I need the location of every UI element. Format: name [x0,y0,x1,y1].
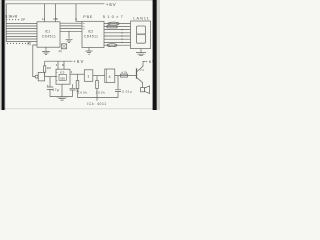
resistor array RP1 bus line 1 [6,22,37,24]
resistor array RP1 bus line 7 [6,38,37,40]
gate G1 body [38,72,44,81]
resistor array RP1 bus line 5 [6,33,37,35]
svg-text:4.7k: 4.7k [121,70,127,74]
svg-text:+6V: +6V [106,2,117,7]
resistor R2 body [44,66,46,72]
arrowhead at IC2 pin [75,19,77,22]
wire cap to ground run [50,96,73,98]
IC3 inner frame [59,74,66,80]
wire segment b to display [104,26,131,28]
7-segment digit lower [137,34,146,43]
resistor R8 body [108,22,119,25]
resistor R4 100k drop [96,76,98,98]
scan gray strip right [157,0,160,110]
capacitor C2 47u plates [47,77,53,97]
svg-text:IC4: 4011: IC4: 4011 [87,102,106,106]
capacitor C1 between IC1 and IC2 [62,44,67,49]
ground under display [136,49,146,56]
ground on bit D wire [66,31,73,42]
svg-text:DP: DP [21,17,25,21]
wire IC1 to IC2 bit D [60,30,82,32]
svg-text:4: 4 [109,75,111,79]
resistor array RP1 bus line 8 [6,41,37,43]
svg-text:IC1: IC1 [45,30,50,34]
svg-text:(6): (6) [59,49,62,53]
wire IC1 to IC2 bit B [60,25,82,27]
svg-text:1M: 1M [47,66,52,70]
svg-text:LAN11: LAN11 [133,17,150,21]
wire bus center drop [96,98,98,101]
resistor R2 1M vertical [44,61,46,76]
scan black band right [153,0,157,110]
resistor R3 body [76,81,79,89]
capacitor C4 0.01u [115,76,121,98]
speaker BL body [140,88,144,92]
wire LT drop to IC1 pin [44,4,46,22]
svg-text:510×7: 510×7 [103,14,125,19]
wire gate1 out to gate4 [93,75,105,77]
junction dots on segment wires [121,29,122,43]
7-segment display LED1 box [131,21,151,49]
svg-text:PBI: PBI [54,17,59,21]
scan edge line bottom [0,107,160,110]
svg-text:IC2: IC2 [88,30,93,34]
gate G1 inverter bubble [35,75,38,78]
resistor R9 body [107,25,117,28]
scan white sliver far left [0,0,2,110]
wire IC1 to IC2 bit A [60,22,82,24]
resistor R3 100k drop [77,74,79,97]
ground under IC3 [57,84,68,100]
svg-text:CD4511: CD4511 [84,35,98,39]
ground under IC2 [86,48,93,55]
resistor array RP1 bus line 6 [6,35,37,37]
IC3 box [56,69,70,84]
wire +6V top rail [6,3,105,5]
wire segment dp to display [104,44,131,46]
wire IC3 pin8 tap [63,61,65,69]
scan black band left [2,0,5,110]
wire bottom bus [78,97,119,99]
resistor R14 body [107,44,117,47]
7-segment digit upper [137,26,146,34]
svg-text:1: 1 [87,74,89,78]
wire BI drop to IC1 pin [55,4,57,22]
resistor array RP1 bus line 4 [6,30,37,32]
gate box 4 inner edge [105,69,107,83]
gate box 4 [105,69,115,83]
scan edge line top [0,0,160,2]
svg-text:100k: 100k [78,91,88,95]
IC1 box [37,22,60,47]
svg-text:VT1: VT1 [140,68,145,72]
svg-text:+6V: +6V [73,59,84,64]
wire segment g to display [104,41,131,43]
wire segment d to display [104,32,131,34]
paper background [0,0,160,110]
wire gate G1 output to IC3 [45,76,56,78]
svg-text:(6): (6) [27,41,31,45]
resistor array dots bottom [7,43,29,44]
svg-text:CD4511: CD4511 [42,35,56,39]
capacitor C3 0.1u [70,84,76,96]
resistor array dots top [6,19,19,20]
wire gate4 out to VT1 [115,75,137,77]
IC2 pin marks [83,24,85,29]
gate box 1 [84,70,93,82]
wire +6V rail lower [45,60,73,62]
svg-text:47µ: 47µ [52,88,59,92]
capacitor C1 mark [62,44,67,49]
svg-text:+: + [47,84,49,88]
wire IC1 pin6 to gate input [33,45,37,77]
svg-text:0.01µ: 0.01µ [122,90,132,94]
wire segment f to display [104,38,131,40]
transistor VT1 base bar [136,68,138,78]
ground under IC1 [42,47,50,54]
svg-text:PBE: PBE [83,15,93,19]
transistor VT1 collector [137,61,146,71]
wire segment c to display [104,29,131,31]
resistor R4 body [96,81,99,89]
IC2 box [82,21,104,47]
wire LE drop to IC2 pin [76,4,82,22]
svg-text:IC3: IC3 [60,71,65,75]
wire IC3 pin4 tap [57,61,59,69]
wire left bus vertical [5,4,7,42]
wire segment e to display [104,35,131,37]
svg-text:555: 555 [60,77,65,81]
transistor VT1 emitter [137,78,143,88]
resistor array RP1 bus line 3 [6,28,37,30]
speaker BL horn [145,86,150,94]
wire IC3 out to gate1 [70,73,84,75]
resistor R5 4.7k body [121,74,128,77]
scan black band left soft edge [4,0,7,110]
svg-text:100k: 100k [96,91,106,95]
svg-text:3.3k×8: 3.3k×8 [5,13,18,18]
svg-text:11: 11 [42,17,45,21]
IC3 left pin marks [56,73,57,81]
wire segment a to display [104,23,131,25]
resistor array RP1 bus line 2 [6,25,37,27]
wire IC1 to IC2 bit C [60,28,82,30]
